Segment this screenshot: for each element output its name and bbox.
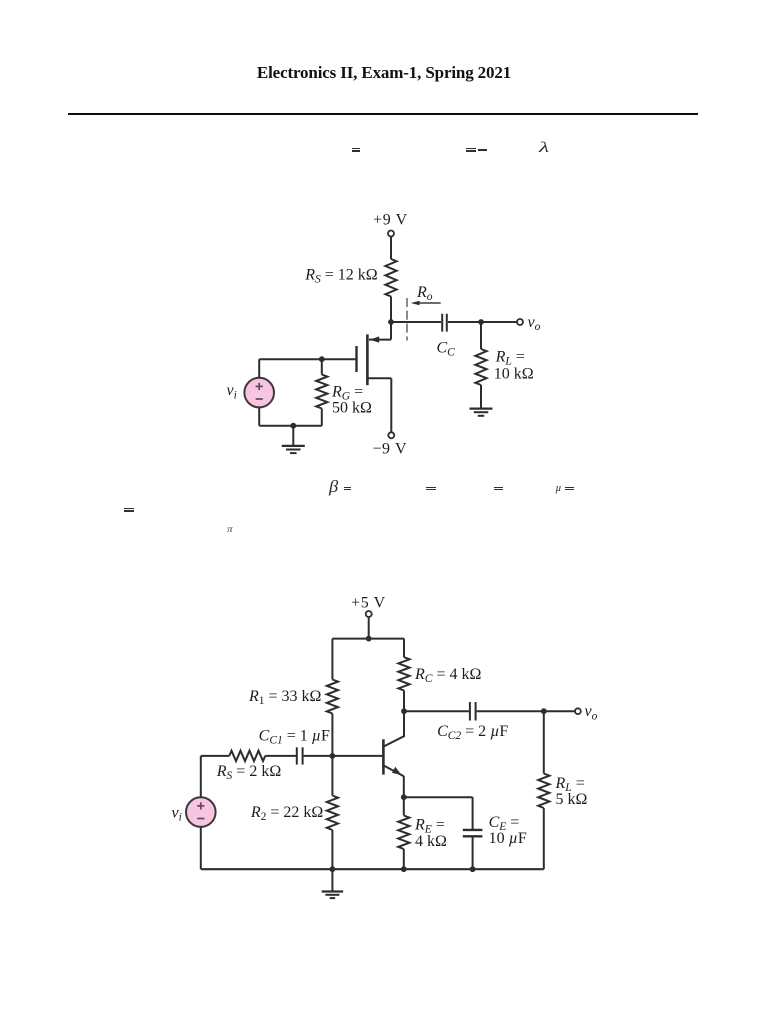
capacitor CC1 1uF [297,747,303,764]
equation fragment: minus (line 1) [478,149,487,151]
svg-text:4 kΩ: 4 kΩ [415,833,447,850]
wire rail to RC top [403,639,405,658]
wire RS to CC1 [265,755,296,757]
source vi (circuit 2) [186,797,216,827]
ground (circuit 1 left) [282,426,305,453]
wire RL bottom to rail [543,808,545,869]
equation fragment: = (line 1b) [466,148,476,150]
svg-text:50 kΩ: 50 kΩ [332,400,372,417]
svg-text:10 µF: 10 µF [489,830,527,847]
resistor R2 22k [327,796,338,831]
wire CC1 to base node [304,755,333,757]
wire RC bottom to collector node [403,691,405,712]
wire gate to junction [322,358,357,360]
node emitter junction dot [401,794,407,800]
wire top rail [332,638,404,640]
wire vi bottom [258,407,260,425]
wire vi bottom to rail [200,827,202,869]
BJT Q1 collector lead [383,711,404,746]
wire RS bottom to node A [390,297,392,323]
node VCC +5V supply terminal [366,611,372,617]
wire node B to RL top [480,322,482,349]
resistor R1 33k [327,680,338,714]
resistor RG 50k [316,375,327,409]
svg-text:+5 V: +5 V [351,595,386,612]
wire CC2 to vo terminal [477,710,575,712]
equation fragment: beta (line 2) [329,479,338,496]
svg-text:RS​ = 2 kΩ: RS​ = 2 kΩ [216,763,282,782]
wire base node to R2 top [331,756,333,796]
node top rail junction dot [366,636,372,642]
equation fragment: = (line 2b) [494,487,503,488]
ground (under RL, circuit 1) [470,409,493,416]
wire CE bottom to rail [472,838,474,870]
equation fragment: lambda (line 1) [539,141,549,156]
BJT Q1 base bar [382,739,385,774]
svg-text:10 kΩ: 10 kΩ [494,366,534,383]
svg-text:R1​ = 33 kΩ: R1​ = 33 kΩ [248,688,322,707]
svg-text:+9 V: +9 V [373,212,408,229]
node R2/ground rail junction dot [330,866,336,872]
resistor RL 10k (circuit 1) [475,349,486,385]
equation fragment: mu subscript (line 2c) [555,484,561,495]
svg-text:vo​: vo​ [585,703,598,722]
svg-text:CC2​ = 2 µF: CC2​ = 2 µF [437,723,508,742]
wire R1 bottom to base node [331,714,333,756]
svg-text:5 kΩ: 5 kΩ [556,791,588,808]
wire RG bottom to bottom rail [321,409,323,426]
wire bottom rail (vi to RG) [259,425,322,427]
wire vo node to RL top [543,711,545,773]
node bottom junction dot [290,423,296,429]
arrow Ro pointing left [411,301,441,306]
svg-text:RS​ = 12 kΩ: RS​ = 12 kΩ [304,267,378,286]
node vo/RL junction dot [541,708,547,714]
MOSFET M1 drain wire [369,378,392,432]
svg-text:vi​: vi​ [172,804,182,823]
svg-text:vo​: vo​ [528,314,541,333]
wire RL bottom to ground [480,385,482,408]
equation fragment: = (line 2) [344,487,352,488]
BJT Q1 emitter lead with arrow [383,765,403,797]
wire emitter node to CE [404,797,473,830]
equation fragment: = (line 2a) [426,487,435,488]
equation fragment: = (line 2c) [565,487,574,488]
capacitor CE 10uF [463,830,483,836]
node collector junction dot [401,708,407,714]
wire R2 bottom to rail [331,830,333,869]
capacitor CC2 2uF [470,702,476,721]
wire supply to top rail [368,617,370,639]
dashed measurement line for Ro [406,298,408,341]
wire emitter node to RE [403,797,405,815]
MOSFET M1 channel bar [366,334,369,385]
wire node A to capacitor CC [391,321,441,323]
BJT Q1 base wire [332,755,383,757]
node B junction dot (RL tap) [478,319,484,325]
output terminal vo (circuit 1) [517,319,523,325]
node gate junction dot [319,356,325,362]
wire vi top to RS [201,756,230,797]
title [0,63,768,83]
resistor RS 12k (circuit 1) [385,259,396,297]
node CE rail junction dot [470,866,476,872]
node A junction dot (RS/source/output) [388,319,394,325]
node VDD +9V supply terminal [388,231,394,237]
equation fragment: = (line 1) [352,148,361,150]
svg-text:RC​ = 4 kΩ: RC​ = 4 kΩ [414,666,481,685]
equation fragment: = (line 3) [124,508,134,510]
wire CC to vo terminal [448,321,517,323]
resistor RL 5k (circuit 2) [538,774,549,809]
MOSFET M1 source wire with arrow [369,322,391,343]
ground (circuit 2) [322,869,344,898]
svg-text:CC​: CC​ [437,340,456,359]
svg-text:CC1​ = 1 µF: CC1​ = 1 µF [259,728,330,747]
node base junction dot [330,753,336,759]
horizontal rule [68,113,698,115]
wire RE bottom to rail [403,849,405,869]
svg-text:R2​ = 22 kΩ: R2​ = 22 kΩ [250,804,324,823]
source vi (circuit 1) [244,378,274,408]
node VSS -9V supply terminal [388,432,394,438]
wire vi top to gate junction [259,359,322,378]
svg-text:−9 V: −9 V [372,440,407,457]
wire rail to R1 top [331,639,333,680]
resistor RS 2k (circuit 2, horizontal) [229,751,265,761]
node RE rail junction dot [401,866,407,872]
wire collector node to CC2 [404,710,470,712]
output terminal vo (circuit 2) [575,708,581,714]
svg-text:vi​: vi​ [227,382,237,401]
resistor RC 4k [398,657,409,690]
svg-text:Ro​: Ro​ [416,284,433,303]
wire supply to RS top [390,237,392,260]
MOSFET M1 gate bar [355,346,357,372]
resistor RE 4k [398,816,409,850]
equation fragment: pi (line 4) [227,525,233,534]
wire bottom rail (circuit 2) [201,868,544,870]
capacitor CC (circuit 1) [442,314,447,332]
wire junction down to RG [321,359,323,374]
